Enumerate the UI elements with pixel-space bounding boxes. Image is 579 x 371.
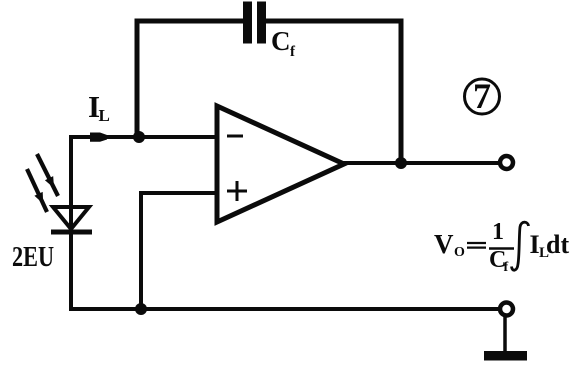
svg-text:L: L [99, 106, 110, 125]
svg-text:O: O [454, 245, 465, 260]
svg-text:2EU: 2EU [12, 241, 54, 273]
svg-text:V: V [434, 229, 454, 259]
svg-text:7: 7 [473, 76, 491, 116]
svg-text:f: f [504, 260, 509, 275]
svg-text:f: f [290, 44, 296, 60]
svg-text:dt: dt [546, 230, 569, 259]
svg-text:1: 1 [492, 219, 504, 245]
svg-text:C: C [271, 26, 291, 56]
